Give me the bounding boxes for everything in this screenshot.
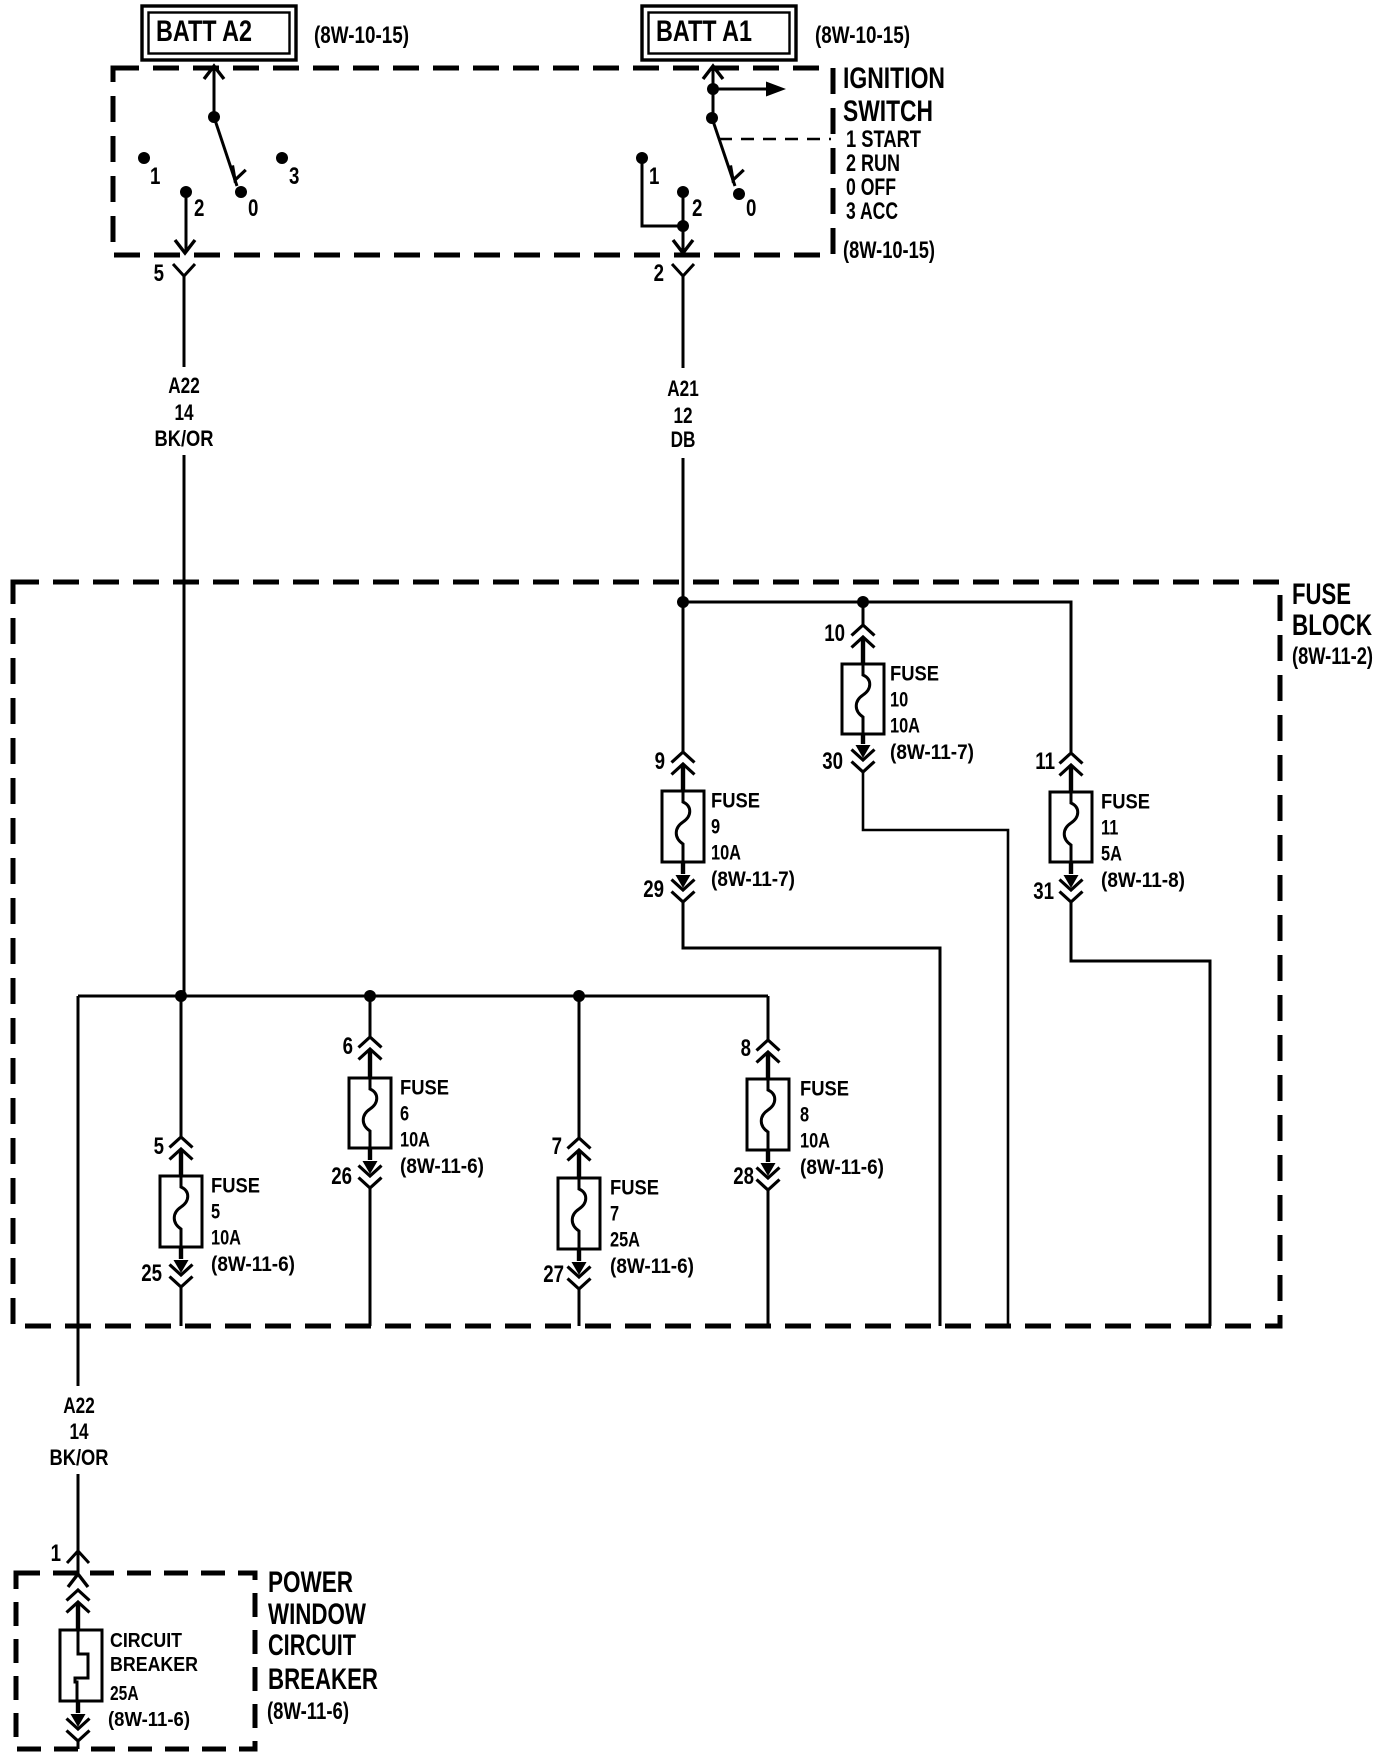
svg-text:POWER: POWER [268,1566,353,1599]
wire: fuse 5 output to fuse block edge [180,1287,183,1326]
circuit breaker body [60,1630,102,1701]
svg-text:12: 12 [673,403,692,428]
svg-text:28: 28 [733,1163,754,1190]
svg-text:BK/OR: BK/OR [155,426,214,451]
svg-text:6: 6 [400,1103,409,1126]
contact 2 (pole B) [677,186,689,198]
junction: A22 at fuse 5 [175,990,187,1002]
wire: fuse F11 output (arrow + connector chevrons pin 31) [1060,862,1083,902]
wire: fuse F6 output (arrow + connector chevrons pin 26) [359,1148,382,1188]
svg-text:25: 25 [141,1260,162,1287]
svg-text:(8W-10-15): (8W-10-15) [843,237,935,264]
fuse F10 body [842,664,884,734]
svg-text:14: 14 [69,1419,89,1444]
svg-text:2: 2 [692,195,702,222]
pin label 2 [654,260,664,287]
svg-text:BATT A2: BATT A2 [156,15,252,48]
svg-text:2: 2 [194,195,204,222]
pin label 28 (fuse F8 output cavity) [733,1163,754,1190]
junction: bus tap to fuse 6 [364,990,376,1002]
svg-text:7: 7 [610,1203,619,1226]
fuse F8 value label [800,1078,884,1180]
fuse F9 body [662,791,704,862]
svg-text:1: 1 [51,1540,61,1567]
pin label 29 (fuse F9 output cavity) [643,876,664,903]
component name POWER WINDOW CIRCUIT BREAKER [268,1566,378,1696]
svg-text:FUSE: FUSE [400,1077,449,1100]
wire: circuit A21 down into fuse block [682,458,685,602]
pin label 2 (pole B) [692,195,702,222]
wire: bus drop to power window circuit breaker [77,996,80,1386]
contact 3 (pole A) [276,152,288,164]
fuse F8 body [747,1079,789,1150]
wire: fuse 9 output routing to bottom of fuse block [683,902,940,1326]
svg-text:FUSE: FUSE [711,790,760,813]
wire: fuse 10 output routing to bottom of fuse block [863,772,1008,1326]
junction: feed tap to fuse 10 [857,596,869,608]
wire label A22 14 BK/OR (bottom) [50,1393,109,1470]
svg-text:FUSE: FUSE [211,1175,260,1198]
svg-text:1 START: 1 START [846,126,921,153]
fuse block enclosure (dashed box) [13,582,1280,1326]
svg-text:0: 0 [746,195,756,222]
svg-text:5: 5 [211,1201,220,1224]
wire: feed tap down to fuse 10 [862,602,865,625]
svg-text:2: 2 [654,260,664,287]
connector pin 2 (ignition switch output, Y symbol) [672,264,694,368]
svg-text:11: 11 [1101,817,1119,840]
pin label 1 (pole B) [649,163,659,190]
svg-text:9: 9 [655,748,665,775]
pin label 7 (fuse F7 input cavity) [552,1133,562,1160]
wire: A21 feed bus inside fuse block (to fuse 9, 10, 11) [683,602,1071,752]
pin label 3 (pole A) [289,163,299,190]
ignition switch enclosure (dashed box) [113,68,833,255]
svg-text:WINDOW: WINDOW [268,1598,367,1631]
svg-text:(8W-11-2): (8W-11-2) [1292,643,1373,670]
svg-text:3 ACC: 3 ACC [846,198,898,225]
svg-text:(8W-11-7): (8W-11-7) [890,741,974,764]
power window circuit breaker enclosure (dashed box) [16,1573,255,1749]
wire label A22 14 BK/OR (left) [155,373,214,451]
wire: feed into fuse F10 (connector chevrons pin 10) [852,625,875,664]
svg-text:BREAKER: BREAKER [110,1654,198,1676]
svg-text:25A: 25A [110,1683,139,1705]
pin label 1 (pole A) [150,163,160,190]
wire: bus down to fuse 7 [578,996,581,1138]
fuse F5 value label [211,1175,295,1277]
wire: fuse F8 output (arrow + connector chevrons pin 28) [757,1150,780,1190]
wire: bus down to fuse 6 [369,996,372,1037]
circuit breaker value label [108,1630,198,1731]
svg-text:0: 0 [248,195,258,222]
pin label 31 (fuse F11 output cavity) [1033,878,1054,905]
reference label (8W-10-15) for ignition switch [843,237,935,264]
contact 0 (pole B) [733,188,745,200]
wire: fuse F7 output (arrow + connector chevrons pin 27) [568,1249,591,1289]
svg-text:10: 10 [824,620,845,647]
switch position legend 2 RUN [846,150,900,177]
svg-text:(8W-10-15): (8W-10-15) [314,22,409,49]
wire: BATT A1 feed entering ignition switch (arrow up at enclosure edge) [703,66,723,117]
pin label 0 (pole B) [746,195,756,222]
svg-text:(8W-11-6): (8W-11-6) [400,1155,484,1178]
svg-text:31: 31 [1033,878,1054,905]
svg-text:11: 11 [1035,748,1055,775]
svg-text:A21: A21 [667,376,699,401]
svg-text:FUSE: FUSE [1101,791,1150,814]
node: ignition switch internal feed tap (arrow to other circuits) [707,82,786,97]
wire: fuse 6 output to fuse block edge [369,1188,372,1326]
svg-text:(8W-11-6): (8W-11-6) [267,1698,349,1725]
reference label (8W-10-15) for BATT A2 [314,22,409,49]
svg-text:1: 1 [150,163,160,190]
pin label 30 (fuse F10 output cavity) [822,748,843,775]
svg-text:SWITCH: SWITCH [843,95,933,128]
svg-text:3: 3 [289,163,299,190]
wire: contact 2 to enclosure exit (arrow down) [682,192,685,251]
wire: bus down to fuse 8 [767,996,770,1040]
pin label 11 (fuse F11 input cavity) [1035,748,1055,775]
svg-text:FUSE: FUSE [800,1078,849,1101]
reference label (8W-11-6) for power window circuit breaker [267,1698,349,1725]
wire: fuse 7 output to fuse block edge [578,1289,581,1326]
svg-text:A22: A22 [63,1393,95,1418]
svg-text:1: 1 [649,163,659,190]
wire: fuse F10 output (arrow + connector chevrons pin 30) [852,734,875,772]
svg-text:10A: 10A [211,1227,241,1250]
svg-text:BREAKER: BREAKER [268,1663,378,1696]
contact 0 (pole A) [235,186,247,198]
fuse F10 value label [890,663,974,765]
junction: contact1/contact2 jumper [677,220,689,232]
svg-text:DB: DB [671,427,696,452]
svg-text:14: 14 [174,400,194,425]
svg-text:10A: 10A [890,715,920,738]
svg-text:(8W-11-8): (8W-11-8) [1101,869,1185,892]
pin label 9 (fuse F9 input cavity) [655,748,665,775]
svg-text:CIRCUIT: CIRCUIT [268,1629,356,1662]
wire: feed into fuse F7 (connector chevrons pin 7) [568,1138,591,1178]
wire: fuse F5 output (arrow + connector chevrons pin 25) [170,1247,193,1287]
fuse F11 body [1050,792,1092,862]
svg-text:10A: 10A [711,842,741,865]
fuse F9 value label [711,790,795,892]
pin label 26 (fuse F6 output cavity) [331,1163,352,1190]
svg-text:A22: A22 [168,373,200,398]
ignition switch pole A wiper (pivot, arm toward contact 0) [208,111,246,186]
wire: A22 distribution bus inside fuse block (feeds fuses 5-8 and circuit breaker) [78,995,768,998]
reference label (8W-10-15) for BATT A1 [815,22,910,49]
wire: feed into fuse F9 (connector chevrons pin 9) [672,752,695,791]
svg-text:27: 27 [543,1261,564,1288]
svg-text:10A: 10A [800,1130,830,1153]
battery feed B(+) off-page reference BATT A1 [642,6,796,60]
svg-text:26: 26 [331,1163,352,1190]
wire: feed into fuse F5 (connector chevrons pin 5) [170,1137,193,1176]
wire: circuit A22 down to fuse block [183,455,186,996]
svg-text:BLOCK: BLOCK [1292,609,1372,642]
svg-text:(8W-11-6): (8W-11-6) [800,1156,884,1179]
pin label 10 (fuse F10 input cavity) [824,620,845,647]
junction: bus tap to fuse 7 [573,990,585,1002]
fuse F7 value label [610,1177,694,1279]
switch position legend 0 OFF [846,174,896,201]
svg-text:(8W-10-15): (8W-10-15) [815,22,910,49]
connector pin 1 (inline connector chevron) [67,1551,89,1563]
component name IGNITION SWITCH [843,62,945,128]
svg-text:8: 8 [741,1035,751,1062]
wire: A21 down to fuse 9 [682,602,685,752]
svg-text:2 RUN: 2 RUN [846,150,900,177]
pin label 6 (fuse F6 input cavity) [343,1033,353,1060]
pin label 8 (fuse F8 input cavity) [741,1035,751,1062]
pin label 27 (fuse F7 output cavity) [543,1261,564,1288]
svg-text:9: 9 [711,816,720,839]
pin label 25 (fuse F5 output cavity) [141,1260,162,1287]
svg-text:29: 29 [643,876,664,903]
svg-text:25A: 25A [610,1229,640,1252]
fuse F7 body [558,1178,600,1249]
battery feed B(+) off-page reference BATT A2 [142,6,296,60]
svg-text:(8W-11-7): (8W-11-7) [711,868,795,891]
svg-text:(8W-11-6): (8W-11-6) [610,1255,694,1278]
junction: A21 at fuse 9 [677,596,689,608]
connector pin 5 (ignition switch output, Y symbol) [173,264,195,367]
wire: feed into fuse F11 (connector chevrons pin 11) [1060,753,1083,792]
wire: fuse 8 output to fuse block edge [767,1190,770,1326]
svg-text:30: 30 [822,748,843,775]
svg-text:FUSE: FUSE [890,663,939,686]
svg-text:BATT A1: BATT A1 [656,15,752,48]
svg-text:6: 6 [343,1033,353,1060]
wire label A21 12 DB (middle) [667,376,699,452]
svg-text:7: 7 [552,1133,562,1160]
contact 1 (pole A) [138,152,150,164]
mechanical linkage dashed line to position legend [719,138,831,140]
svg-text:10: 10 [890,689,908,712]
svg-text:(8W-11-6): (8W-11-6) [108,1709,190,1731]
wire: bus down to fuse 5 [180,996,183,1137]
fuse F11 value label [1101,791,1185,893]
pin label 5 [154,260,164,287]
wire: circuit A22 down to circuit breaker connector [77,1474,80,1573]
svg-text:5: 5 [154,260,164,287]
wire: entry into circuit breaker (arrow up at enclosure edge + connector chevrons) [67,1574,90,1630]
wire: fuse 11 output routing to bottom of fuse block [1071,902,1210,1326]
fuse F6 body [349,1078,391,1148]
wire: fuse F9 output (arrow + connector chevrons pin 29) [672,862,695,902]
svg-text:5: 5 [154,1133,164,1160]
svg-text:5A: 5A [1101,843,1122,866]
fuse F6 value label [400,1077,484,1179]
svg-text:8: 8 [800,1104,809,1127]
wire: feed into fuse F8 (connector chevrons pin 8) [757,1040,780,1079]
component name FUSE BLOCK [1292,578,1372,642]
pin label 2 (pole A) [194,195,204,222]
svg-text:0 OFF: 0 OFF [846,174,896,201]
fuse F5 body [160,1176,202,1247]
svg-text:FUSE: FUSE [1292,578,1351,611]
svg-text:10A: 10A [400,1129,430,1152]
contact 1 (pole B) [636,152,648,164]
wire: circuit breaker output (arrow + connector chevrons to enclosure edge) [67,1701,90,1749]
switch position legend 3 ACC [846,198,898,225]
svg-text:IGNITION: IGNITION [843,62,945,95]
svg-text:BK/OR: BK/OR [50,1445,109,1470]
svg-text:(8W-11-6): (8W-11-6) [211,1253,295,1276]
svg-text:FUSE: FUSE [610,1177,659,1200]
switch position legend 1 START [846,126,921,153]
svg-text:CIRCUIT: CIRCUIT [110,1630,182,1652]
arrow at enclosure exit (pole B) [673,240,693,253]
pin label 1 [51,1540,61,1567]
wire: contact 1 jumper to contact 2 output [642,158,683,226]
pin label 5 (fuse F5 input cavity) [154,1133,164,1160]
ignition switch pole B wiper (pivot, arm toward contact 0) [706,112,744,186]
wire: feed into fuse F6 (connector chevrons pin 6) [359,1037,382,1078]
reference label (8W-11-2) for fuse block [1292,643,1373,670]
wire: BATT A2 feed entering ignition switch (arrow up at enclosure edge) [204,66,224,117]
pin label 0 (pole A) [248,195,258,222]
wire: contact 2 to enclosure exit (arrow down) [175,192,195,253]
contact 2 (pole A) [180,186,192,198]
